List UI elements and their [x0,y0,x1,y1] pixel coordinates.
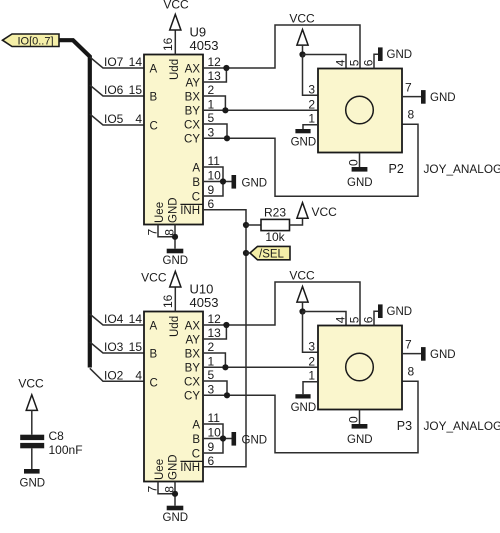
svg-text:GND: GND [291,137,317,149]
U9 pin number 3 [208,126,215,140]
pin number 15 U10 [129,340,143,354]
U9 pin number 2 [208,83,215,97]
U10 pin number 3 [208,383,215,397]
U10 pin name BY [185,363,201,375]
svg-text:GND: GND [430,349,456,361]
svg-text:IO7: IO7 [104,55,124,69]
svg-text:11: 11 [208,154,221,168]
wire SEL stub [246,252,250,254]
wire U10 CY to P3 pin8 [203,381,418,453]
U9 select pin name A [192,162,200,174]
svg-text:INH: INH [180,205,200,217]
ground U9 select pins [232,175,268,189]
wire VCC to P2 pin 3 [303,55,319,96]
wire U9 INH to U10 INH (/SEL net) [203,210,246,467]
connector P2 body [318,69,402,153]
svg-text:1: 1 [208,98,215,112]
net label IO3 [104,340,124,354]
net label JOY_ANALOG P2 [424,162,500,176]
net label IO2 [104,368,124,382]
svg-text:C8: C8 [49,429,65,443]
U9 pin name GND [168,197,180,223]
wire VCC to P3 pin 3 [303,312,319,353]
junction U10 A out [223,322,229,328]
ground P2 pin 0 [347,167,373,189]
ground P2 pin 7 [421,90,456,104]
pin number 15 U9 [129,83,143,97]
svg-text:10k: 10k [265,230,285,244]
svg-text:BY: BY [185,363,201,375]
svg-text:4053: 4053 [190,295,219,310]
wire U9 CX jog [203,124,227,138]
P3 pin number 8 [408,365,415,379]
P3 pin number 3 [308,339,315,353]
power VCC U9 [163,0,189,30]
junction VCC P3 [299,308,305,314]
U9 pin name BX [185,91,201,103]
svg-text:CY: CY [184,134,200,146]
svg-text:GND: GND [20,478,46,490]
svg-text:0: 0 [347,416,361,423]
svg-text:P3: P3 [397,419,412,433]
svg-text:5: 5 [348,316,362,323]
U10 select pin name A [192,419,200,431]
svg-text:JOY_ANALOG: JOY_ANALOG [424,162,500,176]
U9 pin name CX [184,119,200,131]
wire U9 BY to P2 pin2 [203,109,318,111]
P2 pin number 7 [405,81,412,95]
svg-text:IO2: IO2 [104,368,124,382]
wire P3 pin 7 to ground [402,353,421,355]
svg-text:15: 15 [129,340,143,354]
U10 pin name B [150,348,158,360]
svg-text:2: 2 [308,97,315,111]
P2 pin number 0 [347,159,361,166]
svg-text:9: 9 [208,440,215,454]
P3 pin number 0 [347,416,361,423]
svg-text:GND: GND [163,255,189,267]
svg-text:VCC: VCC [312,205,338,219]
svg-text:C: C [150,120,158,132]
power VCC P3 [289,269,315,303]
U10 pin number 13 [208,326,222,340]
connector P3 body [318,326,402,410]
capacitor C8 [20,429,82,457]
U9 pin 8 number [163,229,177,236]
junction U9 B out [222,107,228,113]
U9 pin name B [150,91,158,103]
U9 pin number 12 [208,55,222,69]
U9 pin name C [150,120,158,132]
P3 pin number 6 [362,316,376,323]
svg-text:14: 14 [129,312,143,326]
svg-text:3: 3 [308,339,315,353]
ground C8 [20,469,46,490]
svg-text:BX: BX [185,348,201,360]
svg-text:16: 16 [161,294,175,308]
svg-text:INH: INH [180,462,200,474]
svg-text:5: 5 [208,368,215,382]
svg-text:7: 7 [405,81,412,95]
wire U9 BX jog [203,96,225,110]
wire P3 pin 1 to ground [303,382,318,394]
wire IO7 to U9 [90,57,144,68]
svg-text:AY: AY [186,77,201,89]
wire P3 pin 0 to ground [359,410,361,425]
U10 pin number 1 [208,355,215,369]
junction R23 node [243,222,249,228]
P3 pin number 4 [334,316,348,323]
U10 pin 7 number [146,486,160,493]
net label IO7 [104,55,124,69]
U10 pin 8 number [163,486,177,493]
U9 pin name CY [184,134,200,146]
junction U10 pins 7-8 [172,491,178,497]
wire R23 right lead to VCC [290,218,303,225]
U9 select pin name C [192,191,200,203]
U10 pin name CY [184,391,200,403]
U9 pin name AY [186,77,201,89]
ground P3 pin 1 [291,394,317,414]
svg-text:100nF: 100nF [49,443,83,457]
svg-text:IO3: IO3 [104,340,124,354]
svg-text:0: 0 [347,159,361,166]
svg-text:BY: BY [185,106,201,118]
U10 pin number 12 [208,312,222,326]
power VCC C8 [18,377,44,411]
wire VCC tail P3 [302,302,304,311]
wire U9 pin 8 [174,225,176,249]
wire IO6 to U9 [90,85,144,96]
U10 pin name INH [180,461,203,474]
P3 pin number 2 [308,354,315,368]
U10 pin name Udd [169,316,181,337]
wire U10 select B to GND [203,438,232,440]
U9 pin number 10 [208,169,222,183]
U9 pin name A [150,63,158,75]
svg-text:C: C [150,377,158,389]
U9 pin number 1 [208,98,215,112]
svg-text:A: A [150,63,158,75]
P2 pin number 4 [334,59,348,66]
U9 pin number 6 [208,197,215,211]
svg-text:4: 4 [135,368,142,382]
svg-text:AY: AY [186,334,201,346]
wire U10 pin 8 [174,482,176,506]
svg-text:IO6: IO6 [104,83,124,97]
svg-text:16: 16 [161,37,175,51]
wire P3 pin 6 to ground [374,311,378,325]
U10 pin number 9 [208,440,215,454]
power VCC U10 [141,270,181,287]
U10 pin number 10 [208,426,222,440]
U9 pin number 13 [208,69,222,83]
power VCC R23 [297,203,337,220]
svg-text:Udd: Udd [169,316,181,337]
junction U9 C out [224,135,230,141]
wire U9 select C jog [203,182,223,197]
U10 pin number 2 [208,340,215,354]
U10 pin 16 number [161,294,175,308]
svg-text:C: C [192,191,200,203]
wire U10 BX jog [203,353,225,367]
IC U10 4053 body [144,312,203,482]
svg-text:14: 14 [129,55,143,69]
pin number 14 U9 [129,55,143,69]
wire U10 AX to P3 pin5 [203,282,360,326]
U10 pin name AX [185,320,201,332]
svg-text:11: 11 [208,411,221,425]
U9 pin number 5 [208,111,215,125]
wire P2 pin 1 to ground [303,125,318,129]
svg-text:A: A [192,162,200,174]
U10 pin name GND [168,454,180,480]
U9 pin name Udd [169,59,181,80]
resistor R23 [261,205,290,243]
P3 pin number 7 [405,338,412,352]
junction U10 select [220,435,226,441]
wire U10 BY to P3 pin2 [203,366,318,368]
ground P3 pin 6 [378,304,412,318]
U9 pin name BY [185,106,201,118]
wire R23 left lead [246,224,261,226]
svg-text:IO[0..7]: IO[0..7] [17,35,53,47]
svg-text:12: 12 [208,55,222,69]
svg-text:VCC: VCC [141,270,167,284]
junction U10 B out [222,364,228,370]
U9 pin name INH [180,204,203,217]
wire U9 pin 7 [158,225,175,237]
svg-text:GND: GND [242,434,268,446]
U9 pin name AX [185,63,201,75]
svg-text:GND: GND [430,92,456,104]
svg-text:6: 6 [208,197,215,211]
U9 pin number 11 [208,154,221,168]
svg-text:CX: CX [184,119,200,131]
net label IO6 [104,83,124,97]
wire U10 select C jog [203,439,223,454]
svg-text:AX: AX [185,320,201,332]
ground U10 select pins [232,432,268,446]
svg-text:GND: GND [168,197,180,223]
svg-text:AX: AX [185,63,201,75]
svg-text:1: 1 [208,355,215,369]
U9 reference [190,25,207,40]
U9 select pin name B [192,177,200,189]
svg-text:3: 3 [208,126,215,140]
wire U10 select A jog [203,424,223,439]
svg-text:8: 8 [408,365,415,379]
svg-text:10: 10 [208,426,222,440]
wire C8 to ground [31,448,33,469]
ground P2 pin 1 [291,129,317,149]
svg-text:Uee: Uee [154,459,166,480]
svg-text:5: 5 [348,59,362,66]
P3 pin number 5 [348,316,362,323]
wire VCC tail P2 [302,45,304,54]
U10 pin number 6 [208,454,215,468]
U9 pin name Uee [154,202,166,223]
junction SEL node [243,250,249,256]
wire U9 AY jog [203,68,226,82]
svg-text:15: 15 [129,83,143,97]
svg-text:B: B [192,434,200,446]
P3 reference [397,419,412,433]
svg-text:2: 2 [208,83,215,97]
wire U10 CX jog [203,381,227,395]
wire U10 AY jog [203,325,226,339]
svg-text:13: 13 [208,69,222,83]
svg-text:Uee: Uee [154,202,166,223]
U10 pin name CX [184,376,200,388]
svg-text:GND: GND [163,512,189,524]
svg-text:GND: GND [347,434,373,446]
svg-text:CY: CY [184,391,200,403]
svg-text:1: 1 [308,369,315,383]
P2 pin number 6 [362,59,376,66]
wire U9 select B to GND [203,181,232,183]
U9 value 4053 [190,38,219,53]
svg-text:GND: GND [347,177,373,189]
wire IO5 to U9 [90,114,144,125]
wire U9 pin 16 [174,30,176,54]
svg-text:GND: GND [291,402,317,414]
U10 pin number 11 [208,411,221,425]
wire U9 select A jog [203,167,223,182]
U10 pin name BX [185,348,201,360]
P2 reference [389,162,404,176]
P2 pin number 2 [308,97,315,111]
net flag /SEL [250,246,290,260]
P3 pin number 1 [308,369,315,383]
svg-text:IO4: IO4 [104,312,124,326]
svg-text:7: 7 [405,338,412,352]
wire VCC to P2 pin 4 [303,55,347,69]
bus IO[0..7] [59,40,90,367]
junction U9 A out [223,65,229,71]
svg-text:Udd: Udd [169,59,181,80]
net label IO4 [104,312,124,326]
ground U10 [163,506,189,524]
U9 pin 7 number [146,229,160,236]
svg-text:3: 3 [208,383,215,397]
U9 pin number 9 [208,183,215,197]
U10 select pin name C [192,448,200,460]
wire P2 pin 6 to ground [374,54,378,68]
svg-text:P2: P2 [389,162,404,176]
bus label IO[0..7] [3,34,60,47]
svg-text:2: 2 [308,354,315,368]
power VCC P2 [289,12,315,46]
svg-text:CX: CX [184,376,200,388]
wire P2 pin 0 to ground [359,153,361,168]
wire U10 pin 7 [158,482,175,494]
svg-text:13: 13 [208,326,222,340]
ground P2 pin 6 [378,47,412,61]
junction U9 pins 7-8 [172,234,178,240]
svg-text:VCC: VCC [289,269,315,283]
P2 pin number 3 [308,82,315,96]
ground U9 [163,249,189,267]
svg-text:JOY_ANALOG: JOY_ANALOG [424,419,500,433]
svg-text:10: 10 [208,169,222,183]
svg-text:BX: BX [185,91,201,103]
pin number 4 U9 [135,112,142,126]
svg-text:GND: GND [387,49,413,61]
wire VCC to P3 pin 4 [303,312,347,326]
svg-text:4: 4 [334,59,348,66]
pin number 14 U10 [129,312,143,326]
svg-text:9: 9 [208,183,215,197]
svg-text:3: 3 [308,82,315,96]
junction VCC P2 [299,51,305,57]
U10 pin number 5 [208,368,215,382]
U10 value 4053 [190,295,219,310]
pin number 4 U10 [135,368,142,382]
svg-text:B: B [150,348,158,360]
svg-text:12: 12 [208,312,222,326]
ground P3 pin 7 [421,347,456,361]
svg-text:GND: GND [242,177,268,189]
svg-text:A: A [150,320,158,332]
svg-text:VCC: VCC [163,0,189,11]
svg-text:/SEL: /SEL [259,249,285,261]
P2 pin number 8 [408,108,415,122]
net label IO5 [104,112,124,126]
junction U10 C out [224,392,230,398]
svg-text:8: 8 [408,108,415,122]
svg-text:1: 1 [308,112,315,126]
P2 pin number 5 [348,59,362,66]
svg-text:2: 2 [208,340,215,354]
U10 reference [190,282,214,297]
U10 pin name AY [186,334,201,346]
svg-text:4053: 4053 [190,38,219,53]
svg-text:B: B [192,177,200,189]
wire IO3 to U10 [90,342,144,353]
U10 pin name Uee [154,459,166,480]
svg-text:GND: GND [168,454,180,480]
svg-text:GND: GND [387,306,413,318]
wire U10 pin 16 [174,287,176,311]
svg-text:4: 4 [135,112,142,126]
svg-text:4: 4 [334,316,348,323]
wire U9 CY to P2 pin8 [203,124,418,196]
junction U9 select [220,178,226,184]
IC U9 4053 body [144,55,203,225]
U10 select pin name B [192,434,200,446]
wire P2 pin 7 to ground [402,96,421,98]
svg-text:IO5: IO5 [104,112,124,126]
U10 pin name A [150,320,158,332]
svg-text:5: 5 [208,111,215,125]
svg-text:A: A [192,419,200,431]
U10 pin name C [150,377,158,389]
svg-text:VCC: VCC [289,12,315,26]
U9 pin 16 number [161,37,175,51]
svg-text:6: 6 [208,454,215,468]
wire U9 AX to P2 pin5 [203,25,360,69]
svg-text:C: C [192,448,200,460]
ground P3 pin 0 [347,424,373,446]
wire IO4 to U10 [90,314,144,325]
wire IO2 to U10 [90,368,144,381]
P2 pin number 1 [308,112,315,126]
wire VCC to C8 [31,410,33,435]
net label JOY_ANALOG P3 [424,419,500,433]
svg-text:B: B [150,91,158,103]
svg-text:VCC: VCC [18,377,44,391]
